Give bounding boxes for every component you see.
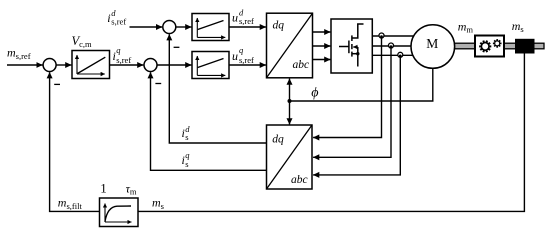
svg-text:τm: τm (126, 182, 137, 197)
motor M (411, 25, 455, 69)
summing junction circle3 (163, 21, 176, 34)
svg-text:s,ref: s,ref (239, 16, 254, 26)
svg-text:abc: abc (293, 59, 310, 71)
wire inverter to motor phase b (372, 45, 433, 47)
block filter (100, 198, 139, 227)
wire circle2 to PI-q (157, 64, 191, 66)
svg-text:q: q (239, 45, 244, 55)
wire phase c tap down (313, 55, 400, 175)
wire circle1 to Vcm (56, 64, 71, 66)
svg-text:dq: dq (272, 134, 284, 146)
gearbox (475, 36, 504, 57)
summing junction circle2 (144, 59, 157, 72)
wire i_d,ref input (130, 26, 163, 28)
minus at circle3 (174, 46, 180, 48)
wire phi down into dq-abc2 (289, 101, 291, 124)
mosfet gate lead (339, 46, 349, 48)
svg-text:M: M (426, 36, 438, 51)
wire i_q feedback (151, 72, 267, 170)
svg-text:ms,ref: ms,ref (7, 46, 31, 61)
wire Vcm to circle2 (110, 64, 144, 66)
svg-text:dq: dq (273, 20, 285, 32)
svg-text:s: s (185, 159, 188, 169)
svg-text:ms: ms (152, 196, 164, 211)
mosfet source lead (357, 47, 359, 67)
wire dq-abc1 to inverter phase b (313, 45, 331, 47)
mosfet gate plate (348, 41, 350, 54)
minus at circle1 (54, 83, 60, 85)
block PI-q (192, 52, 229, 79)
wire phase a tap down (313, 36, 381, 138)
wire PI-q to dq-abc1 (229, 64, 266, 66)
wire dq-abc1 to inverter phase a (313, 31, 331, 33)
svg-text:abc: abc (291, 174, 308, 186)
block dq-abc1 (267, 13, 313, 78)
junction dot phase c tap (398, 52, 403, 57)
wire inverter to motor phase a (372, 35, 433, 37)
svg-text:q: q (116, 45, 121, 55)
svg-text:mm: mm (458, 20, 474, 35)
wire filter output to circle1 (50, 72, 100, 211)
small gear (493, 39, 502, 48)
mosfet body stub (352, 53, 358, 55)
svg-text:s,ref: s,ref (239, 55, 254, 65)
wire phase b tap down (313, 46, 391, 157)
wire i_d feedback (169, 34, 266, 143)
summing junction circle1 (43, 59, 56, 72)
wire m_s,ref input (7, 64, 43, 66)
mosfet drain stub and lead (352, 24, 364, 38)
shaft (455, 43, 545, 49)
junction dot phi (288, 99, 292, 103)
svg-text:s,ref: s,ref (116, 55, 131, 65)
wire dq-abc1 to inverter phase c (313, 59, 331, 61)
wire motor bottom to phi line (290, 60, 433, 101)
wire m_s feedback from torque sensor (138, 54, 524, 212)
svg-text:ϕ: ϕ (311, 85, 318, 100)
wire PI-d to dq-abc1 (229, 26, 266, 28)
block PI-d (192, 14, 229, 41)
svg-text:s,ref: s,ref (111, 16, 126, 26)
block dq-abc2 (267, 125, 313, 189)
svg-text:u: u (232, 49, 238, 63)
big gear (479, 41, 491, 53)
minus at circle2 (155, 83, 161, 85)
wire inverter to motor phase c (372, 54, 433, 56)
junction dot phase b tap (389, 43, 394, 48)
svg-text:s: s (185, 132, 188, 142)
svg-text:u: u (232, 11, 238, 25)
junction dot phase a tap (379, 33, 384, 38)
wire circle3 to PI-d (176, 26, 192, 28)
mosfet channel segments (351, 35, 353, 41)
svg-text:Vc,m: Vc,m (72, 34, 93, 49)
svg-text:i: i (107, 11, 110, 25)
svg-text:ms: ms (512, 19, 524, 34)
block Vcm (72, 51, 110, 79)
svg-text:1: 1 (100, 181, 107, 196)
mosfet source dot (356, 52, 359, 55)
torque sensor black box (515, 39, 535, 54)
mosfet source stub with arrow (353, 46, 358, 48)
svg-text:ms,filt: ms,filt (58, 196, 83, 211)
wire phi up into dq-abc1 (289, 79, 291, 101)
block inverter (331, 19, 372, 73)
